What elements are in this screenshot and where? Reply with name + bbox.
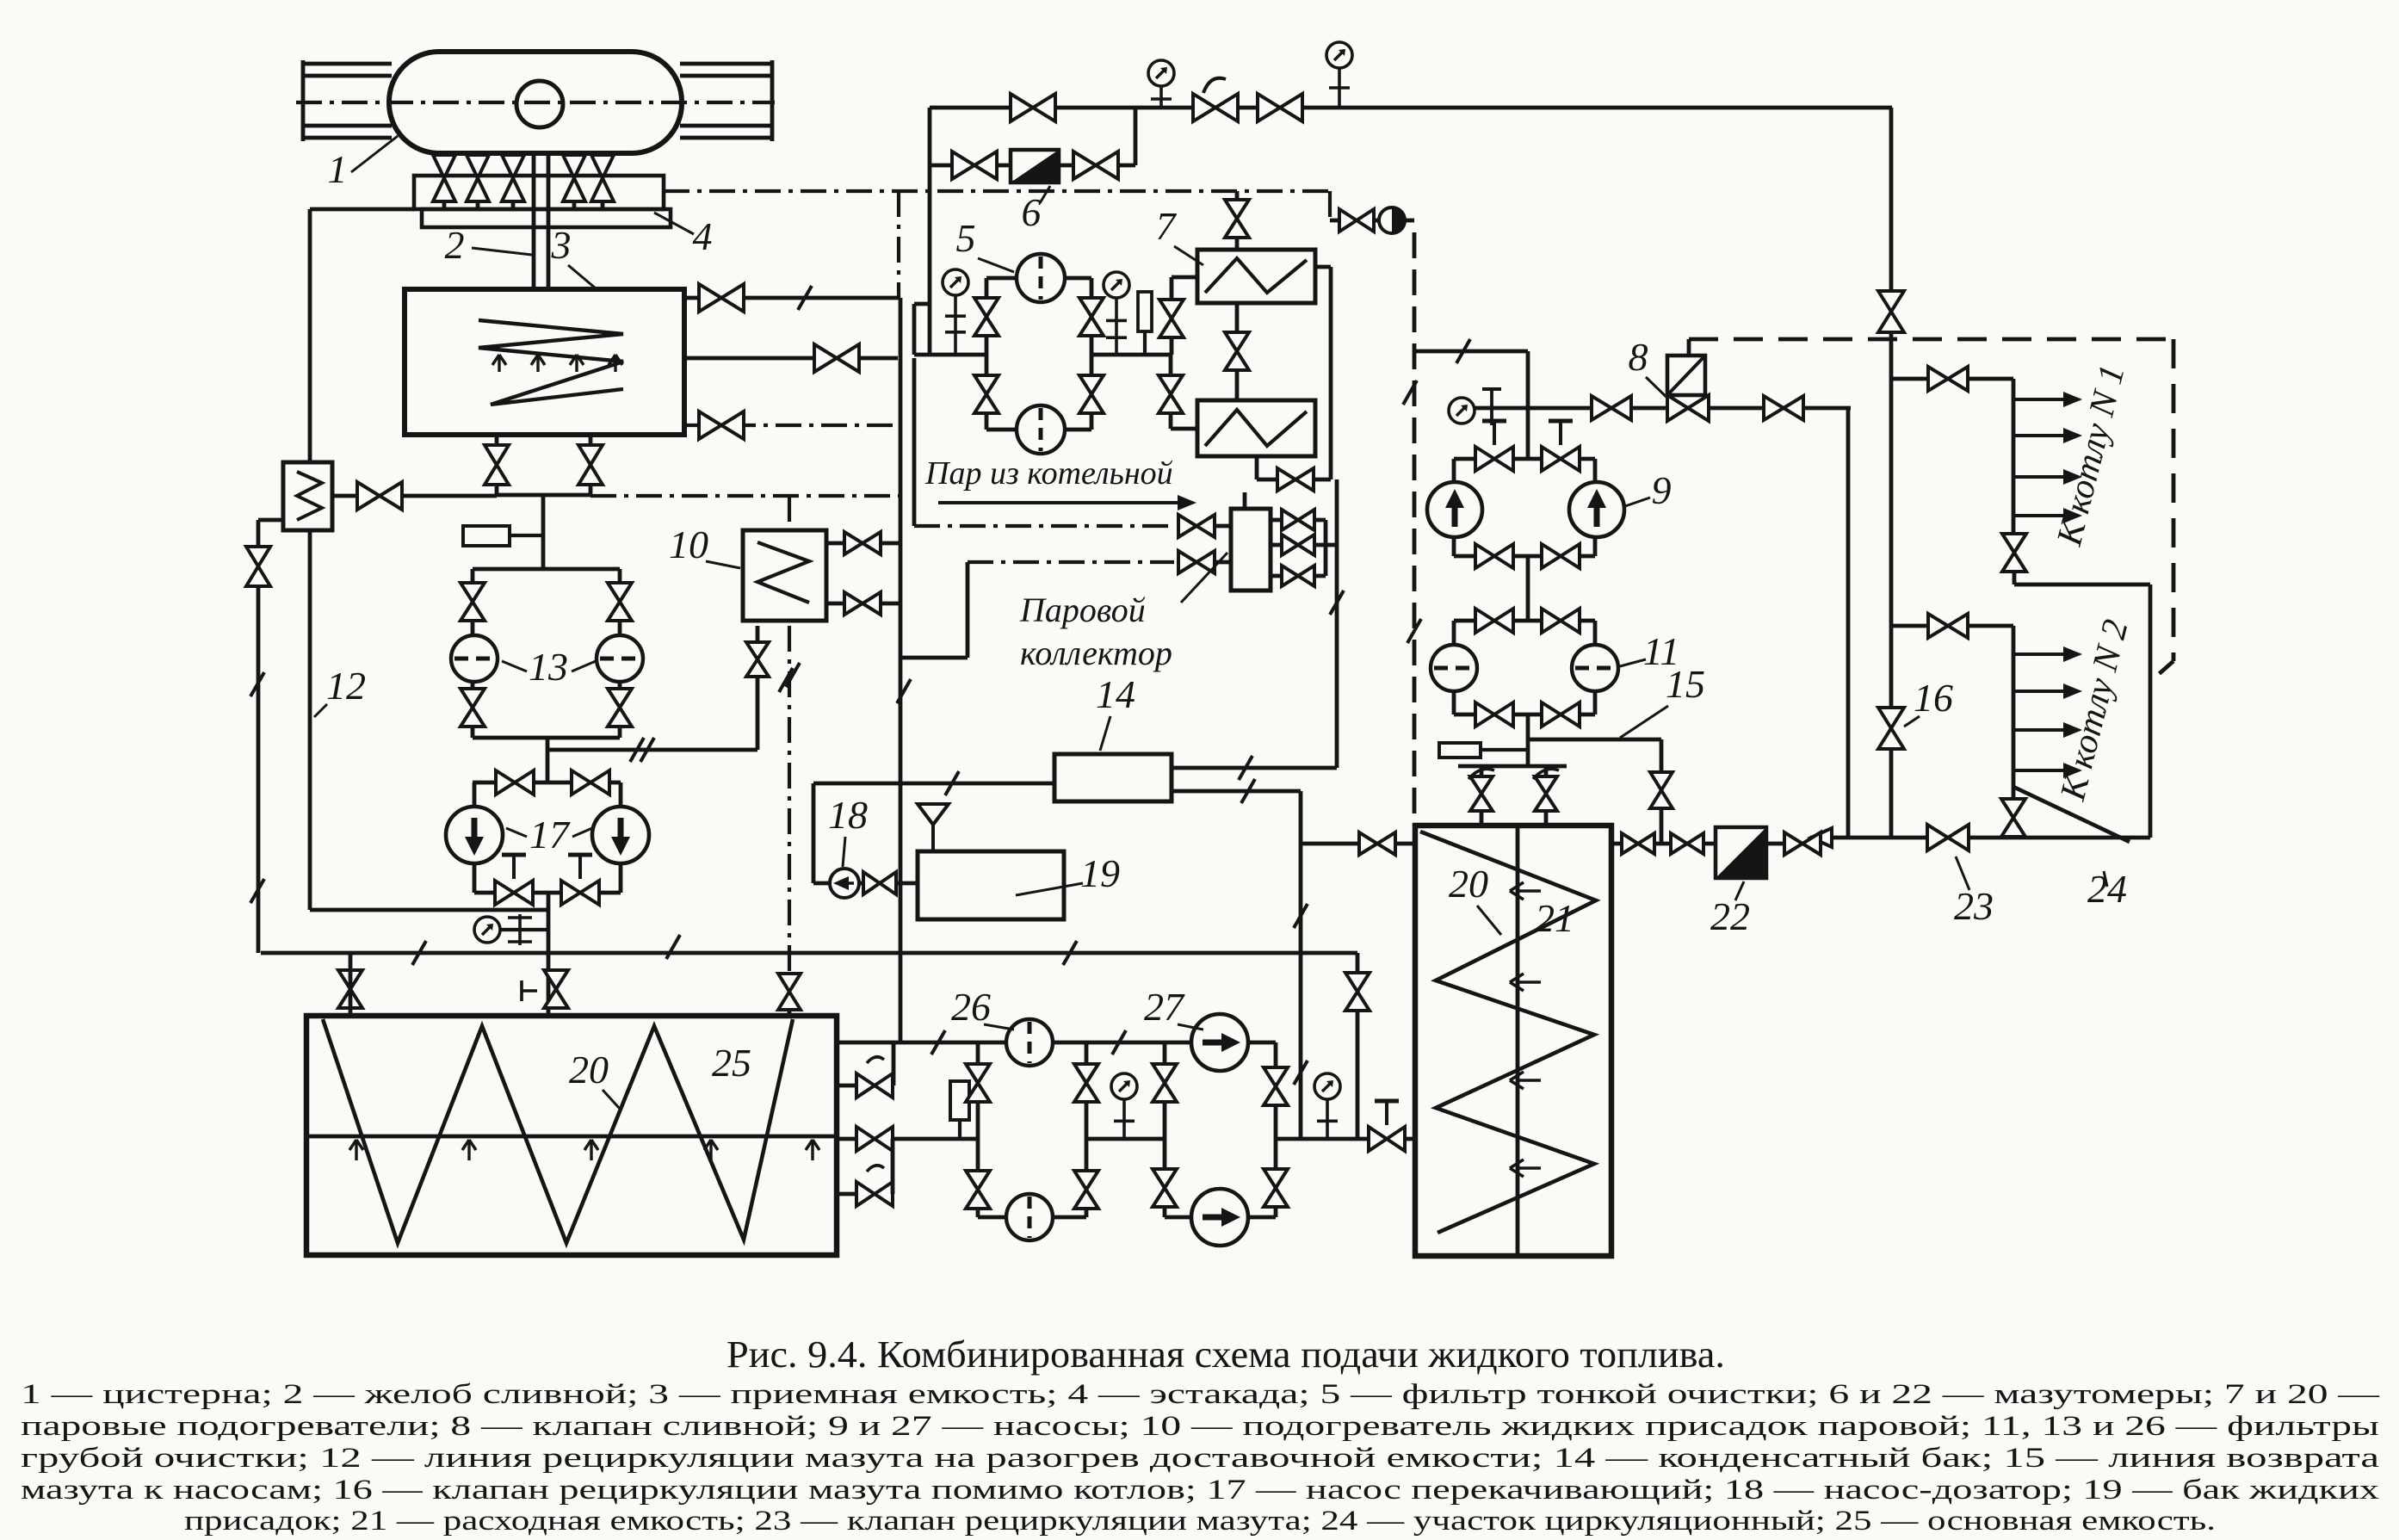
wire 5 right riser [1090, 278, 1094, 355]
valve handle [1468, 769, 1494, 779]
wire to N2 [1891, 624, 2013, 628]
wire dashdot from manifold [664, 189, 1330, 193]
pump 27 bottom [1191, 1189, 1248, 1246]
valve feed tank21 [1369, 1127, 1405, 1151]
svg-text:паровые подогреватели; 8 — к: паровые подогреватели; 8 — клапан сливно… [21, 1411, 2379, 1442]
gauge drain line [1449, 398, 1475, 424]
wire dashdot corner down [1328, 191, 1332, 220]
burner arrow N1 [2013, 392, 2082, 407]
valve heater10 out1 [844, 532, 881, 554]
svg-text:грубой очистки; 12 — линия: грубой очистки; 12 — линия рециркуляции … [21, 1443, 2380, 1474]
leader 12 [314, 704, 327, 717]
wire 14 right lower [1172, 789, 1301, 794]
pump 27 top [1191, 1014, 1248, 1071]
filter 5 bottom [1017, 405, 1065, 454]
wire recirculation line [1810, 836, 2150, 840]
break mark [250, 672, 264, 696]
wire N2 riser [2012, 626, 2016, 799]
drain valve box 8 [1667, 356, 1705, 395]
valve drain 1 [1592, 396, 1631, 420]
svg-text:Пар из котельной: Пар из котельной [924, 455, 1173, 492]
wire line15 vert [1660, 739, 1664, 844]
svg-text:7: 7 [1156, 204, 1178, 248]
valve hx7 ll [1159, 375, 1183, 413]
break mark [666, 935, 680, 959]
valve collector r1 [1282, 535, 1314, 555]
valve hx7 top [1225, 200, 1249, 238]
pump 18 dosing [830, 869, 859, 898]
wire hx7 right vert [1329, 267, 1333, 479]
wire 27 left riser up [1163, 1042, 1167, 1139]
leader 22 [1735, 881, 1744, 900]
wire hx7 low right [1255, 456, 1259, 479]
wire 5 right lower [1090, 355, 1094, 430]
gauge top main 2 [1326, 42, 1352, 68]
wire 13 to 17 [546, 738, 550, 782]
break mark [412, 941, 426, 965]
wire 1511 upper [1299, 791, 1303, 1042]
wire t21 feed b [1544, 766, 1549, 826]
pipe 2 right [547, 153, 551, 290]
wire instr link [1481, 748, 1528, 751]
leader 14 [1100, 716, 1110, 751]
wire drain 3 [511, 153, 516, 209]
wire rail left bottom [303, 136, 392, 140]
wire tank3 drain left [495, 435, 499, 495]
wire hx7 down [1335, 479, 1339, 768]
circulation diagonal 24 [2013, 787, 2130, 842]
filter 5 top [1017, 254, 1065, 302]
gauge transfer [474, 917, 500, 943]
svg-text:коллектор: коллектор [1020, 634, 1172, 672]
break mark [897, 679, 911, 703]
svg-text:10: 10 [669, 523, 708, 566]
wire heater down vertical [308, 530, 312, 910]
leader 20 [603, 1090, 620, 1109]
valve 17 bl [495, 881, 533, 905]
valve 27 br [1264, 1169, 1288, 1207]
leader 1 [351, 136, 398, 172]
wire steam vert pair b [912, 358, 917, 526]
break mark [931, 1030, 945, 1054]
fuel meter 22 [1716, 827, 1766, 878]
heater coil [297, 472, 322, 520]
wire 17 top header [473, 781, 621, 785]
tick [1482, 389, 1501, 425]
wire 11 bottom header [1454, 713, 1595, 717]
valve heater10 out2 [844, 592, 881, 615]
leader 5 [978, 258, 1014, 272]
wire 17 bottom header [474, 891, 621, 895]
wire 5 inlet [914, 353, 986, 357]
valve top main 1 [1011, 94, 1055, 121]
wire t25 s1 up [892, 1042, 896, 1085]
burner arrow N2 [2013, 722, 2082, 738]
hx7 lower coil [1205, 410, 1307, 446]
wire drain line [1475, 406, 1851, 411]
wire drain up [1526, 351, 1530, 408]
filter 26 bottom [1006, 1194, 1053, 1240]
wire N1 right down [2149, 584, 2153, 838]
valve handle curved [867, 1057, 884, 1063]
svg-text:5: 5 [956, 216, 976, 260]
wire 13 bottom header [473, 736, 620, 740]
filter 13 right [597, 635, 643, 682]
valve rotameter [1339, 209, 1374, 232]
leader 19 [1016, 883, 1083, 895]
valve collector l1 [1178, 515, 1215, 537]
wire 5 left riser [985, 278, 989, 355]
valve 5 br [1079, 375, 1104, 413]
wire steam bottom link [900, 656, 968, 660]
valve 26 tl [966, 1064, 990, 1102]
svg-text:8: 8 [1629, 335, 1648, 379]
break mark [1239, 756, 1252, 780]
svg-text:18: 18 [828, 793, 868, 837]
valve tank3 out2 [814, 344, 859, 372]
valve 5 tr [1079, 298, 1104, 336]
valve disch 2 [1671, 833, 1703, 854]
manifold 4 upper [414, 176, 664, 209]
wire 5 top line [986, 276, 1017, 281]
wire bypass vertical right [1134, 108, 1138, 165]
wire rail cap right [770, 60, 775, 141]
steam collector [1231, 509, 1271, 591]
gauge stem [1151, 86, 1172, 108]
heater 10 coil [757, 542, 809, 603]
wire recirc header [310, 908, 548, 912]
wire collector out 2 [1271, 574, 1326, 578]
wire 5 left lower [985, 355, 989, 430]
burner arrow N1 [2013, 508, 2082, 523]
hx7 upper coil [1205, 258, 1307, 293]
wire 26-27 link [1086, 1137, 1165, 1141]
wire drain 5 [601, 153, 605, 209]
burner arrow N2 [2013, 763, 2082, 778]
wire steam into collector [1215, 524, 1231, 529]
burner arrow N1 [2013, 428, 2082, 443]
wire rail cap left [301, 60, 306, 141]
wire 27 bottom in [1165, 1215, 1191, 1220]
wire vert 1046 down [899, 658, 903, 1042]
dp instrument [1138, 292, 1152, 331]
wire rail right low [680, 124, 772, 128]
tank 3 spray arrow [609, 355, 622, 372]
svg-text:21: 21 [1535, 896, 1574, 940]
wire 26 top header r [1052, 1041, 1191, 1045]
valve handle curved [867, 1166, 884, 1172]
wire t21 feed a [1480, 766, 1484, 826]
valve 13 tl [461, 583, 485, 621]
wire 17 left riser [473, 782, 477, 807]
valve disch 1 [1622, 833, 1654, 854]
svg-text:20: 20 [1449, 862, 1488, 906]
wire line15 h [1528, 738, 1661, 742]
tank 25 level arrow [806, 1140, 819, 1160]
wire 13 right riser [618, 569, 622, 634]
svg-text:6: 6 [1022, 190, 1042, 234]
valve line15 [1650, 772, 1672, 808]
wire hx7 top feed [1235, 191, 1240, 250]
handle [1549, 421, 1573, 445]
coil arrow [1510, 1072, 1541, 1089]
wire left main vertical [308, 209, 312, 462]
pump 17 left [446, 807, 503, 863]
leader 13 l [502, 661, 527, 671]
valve left drop [246, 547, 270, 586]
valve handle [1533, 769, 1559, 779]
tank 1 manhole [516, 81, 563, 127]
relief valve lever [1203, 78, 1226, 93]
valve 16 [1878, 708, 1904, 749]
gauge stem [1106, 298, 1127, 355]
valve 26 br [1074, 1171, 1098, 1209]
valve drain 1 [433, 155, 455, 201]
gauge 26-27 [1111, 1073, 1137, 1099]
gauge stem [1114, 1099, 1135, 1139]
gauge stem [945, 295, 966, 355]
leader 10 [706, 561, 740, 568]
tick handle [522, 980, 537, 1001]
break mark [779, 668, 793, 692]
steam arrow [938, 495, 1196, 510]
leader 24 [2104, 871, 2107, 887]
leader 23 [1956, 857, 1969, 890]
wire steam line 1 [914, 524, 1174, 528]
valve 11 bl [1475, 702, 1513, 727]
wire heater10 bottom [756, 626, 760, 640]
valve N1 [1928, 367, 1968, 391]
wire 27 right riser [1274, 1042, 1278, 1139]
wire gauge link [500, 928, 548, 931]
svg-text:24: 24 [2087, 867, 2127, 911]
wire tank25 feed a [349, 953, 353, 1018]
wire N1 riser [2012, 379, 2016, 533]
handle [568, 855, 592, 879]
funnel [918, 804, 949, 851]
flow arrow left [1811, 828, 1832, 847]
valve 9 tl [1475, 447, 1513, 471]
valve t21 b [1535, 776, 1557, 811]
wire dashed boundary top [1689, 337, 2173, 342]
wire bypass line [930, 164, 1135, 168]
break mark [640, 738, 654, 762]
wire drain corner [1846, 408, 1851, 838]
wire tank3 out3 [684, 424, 898, 427]
wire steam dashdot drop [897, 191, 900, 298]
gauge stem [1317, 1099, 1338, 1139]
tank 3 heating coil [479, 320, 623, 405]
valve tank3 out1 [699, 284, 744, 312]
valve 17 br [561, 881, 599, 905]
handle [1482, 421, 1506, 445]
valve tank3 out3 [699, 411, 744, 439]
valve collector l2 [1178, 551, 1215, 573]
svg-text:3: 3 [551, 223, 572, 267]
gauge 5 right [1104, 272, 1129, 298]
wire main down right [1889, 108, 1894, 838]
leader 3 [568, 265, 596, 288]
wire 27 top out [1248, 1041, 1276, 1045]
heater 10 additive [743, 530, 826, 621]
wire rotameter corner [1401, 219, 1414, 223]
wire N1 bottom [2013, 572, 2017, 584]
valve 13 br [608, 689, 632, 727]
wire hx7 interlink [1235, 303, 1240, 400]
rotameter [1379, 207, 1405, 233]
valve t25 s2 [856, 1127, 893, 1151]
svg-text:мазута к насосам; 16 — клап: мазута к насосам; 16 — клапан рециркуляц… [21, 1475, 2380, 1506]
svg-text:22: 22 [1710, 894, 1750, 938]
wire 5 entry frame [914, 302, 930, 306]
svg-text:1 — цистерна; 2 — желоб слив: 1 — цистерна; 2 — желоб сливной; 3 — при… [21, 1379, 2380, 1410]
wire heater left stub [258, 518, 283, 523]
wire 17 down [547, 893, 551, 1018]
wire 11 right riser [1593, 621, 1598, 645]
wire 9 top header [1454, 457, 1595, 461]
wire t25 stub2 [837, 1137, 859, 1141]
coil arrow [1510, 974, 1541, 991]
filter 11 left [1431, 645, 1477, 691]
tank 1 cistern [389, 52, 682, 153]
wire 9 right lower [1593, 537, 1598, 556]
wire t25 s3 up [891, 1139, 895, 1194]
pipe 2 left [532, 153, 536, 290]
leader 2 [472, 248, 532, 255]
leader 20b [1477, 906, 1501, 935]
wire rotameter line [1330, 219, 1401, 223]
svg-text:17: 17 [529, 813, 571, 857]
valve 11 tr [1542, 609, 1580, 633]
wire line to26 top [837, 1041, 1007, 1045]
wire collector out 0 [1271, 518, 1326, 523]
tank 25 main storage [306, 1016, 837, 1255]
wire 26 right riser [1085, 1042, 1089, 1139]
pump 9 right [1569, 482, 1624, 537]
wire 9 top center up [1526, 408, 1530, 459]
wire collector right bus [1324, 520, 1328, 576]
wire dashed stub [1687, 339, 1691, 356]
wire vert 1511 [1299, 1042, 1303, 1139]
burner arrow N2 [2013, 646, 2082, 662]
break mark [945, 771, 959, 795]
break mark [250, 879, 264, 903]
condensate tank 14 [1054, 754, 1172, 801]
wire 27 to tank21 [1276, 1137, 1415, 1141]
wire rail left low [303, 124, 392, 128]
wire 9-11 link [1526, 556, 1530, 621]
valve 17 tr [572, 770, 609, 795]
wire collector to down [1326, 543, 1337, 547]
valve 18 [863, 872, 896, 894]
wire 13 left riser [471, 569, 475, 634]
valve t25 s1 [856, 1073, 893, 1098]
wire instrument stub [958, 1120, 961, 1139]
wire rail right [680, 74, 772, 78]
wire heater10 drain [547, 748, 757, 752]
wire t25 stub1 [837, 1084, 859, 1088]
tank 25 level arrow [584, 1140, 598, 1160]
leader 4 [654, 213, 694, 234]
valve collector r0 [1282, 510, 1314, 530]
gauge after27 [1314, 1073, 1340, 1099]
tank 25 coil [323, 1019, 793, 1243]
valve 5 tl [974, 298, 999, 336]
valve drain 2 [1764, 396, 1803, 420]
burner arrow N2 [2013, 683, 2082, 699]
wire 14 left [813, 782, 1054, 786]
svg-text:1: 1 [328, 147, 348, 191]
wire rail left [303, 74, 392, 78]
wire steam drop dashed [1413, 232, 1417, 826]
wire dashed boundary right [2172, 339, 2176, 661]
wire heater10 drop dashdot [788, 626, 791, 971]
wire steam line 2 [968, 560, 1174, 564]
wire 18-19 link [859, 881, 918, 886]
wire 18 suction [812, 783, 816, 883]
break mark [630, 738, 644, 762]
leader 13 r [572, 661, 596, 671]
wire steam vert pair a [899, 298, 903, 658]
additive tank 19 [918, 851, 1064, 919]
leader 7 [1174, 246, 1203, 265]
leader 26 [984, 1024, 1014, 1030]
valve 27 tl [1153, 1064, 1177, 1102]
wire 26 left lower [976, 1139, 980, 1217]
wire 11 down [1526, 714, 1530, 766]
wire 11 top header [1454, 619, 1595, 623]
wire supply header [893, 1137, 978, 1141]
valve 11 br [1542, 702, 1580, 727]
wire 27 bottom out [1248, 1215, 1276, 1220]
leader collector [1181, 553, 1227, 603]
gauge top main [1148, 60, 1174, 86]
valve collector r2 [1282, 566, 1314, 586]
wire 18 suction h [813, 881, 830, 886]
leader 8 [1646, 377, 1674, 405]
tank 21 service [1415, 826, 1611, 1256]
wire drain header [497, 493, 590, 498]
burner arrow N1 [2013, 469, 2082, 485]
wire 26 right lower [1085, 1139, 1089, 1217]
valve drain 3 [502, 155, 524, 201]
valve heater10 [746, 642, 769, 677]
valve tank3 drain right [578, 445, 603, 485]
wire hx7 up-left [1172, 275, 1197, 280]
svg-text:20: 20 [569, 1048, 609, 1092]
wire 5 bottom line r [1065, 428, 1091, 432]
heater (recirculation) [283, 462, 332, 530]
wire 5 outlet [1091, 353, 1172, 357]
wire 27 left lower [1163, 1139, 1167, 1217]
valve heater outlet [357, 482, 402, 510]
valve tank3 drain left [485, 445, 509, 485]
wire drain 1 [442, 153, 447, 209]
wire bypass vertical left [928, 108, 932, 355]
tank 25 fuel level [306, 1135, 837, 1139]
valve 11 tl [1475, 609, 1513, 633]
wire heater10 out1 [826, 541, 900, 546]
filter 26 top [1006, 1019, 1053, 1066]
instrument small [950, 1081, 969, 1120]
svg-text:2: 2 [445, 223, 465, 267]
valve N2 [1928, 614, 1968, 638]
svg-text:19: 19 [1080, 851, 1120, 895]
wire hx7 left riser [1170, 277, 1174, 355]
wire drain drop [541, 495, 546, 569]
leader 18 [843, 837, 845, 867]
wire 9 right riser [1593, 459, 1598, 481]
